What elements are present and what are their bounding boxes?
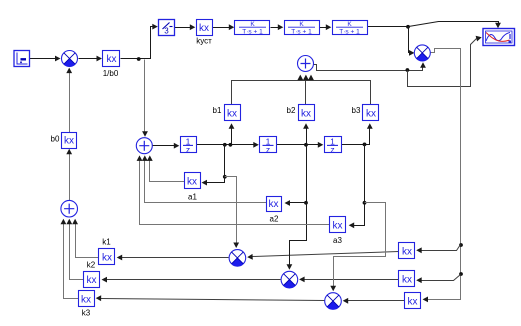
- svg-text:T·s + 1: T·s + 1: [242, 28, 263, 35]
- svg-text:kуст: kуст: [196, 37, 212, 46]
- svg-text:z: z: [266, 144, 270, 154]
- svg-text:b1: b1: [213, 106, 222, 115]
- svg-text:kx: kx: [107, 54, 117, 65]
- svg-text:kx: kx: [402, 246, 412, 257]
- svg-text:kx: kx: [64, 136, 74, 147]
- svg-text:kx: kx: [81, 294, 91, 305]
- svg-text:kx: kx: [408, 296, 418, 307]
- svg-text:kx: kx: [102, 252, 112, 263]
- svg-text:kx: kx: [187, 176, 197, 187]
- svg-text:kx: kx: [87, 275, 97, 286]
- svg-text:kx: kx: [199, 23, 209, 34]
- svg-text:z: z: [330, 144, 334, 154]
- svg-text:kx: kx: [269, 199, 279, 210]
- svg-text:kx: kx: [402, 274, 412, 285]
- svg-text:kx: kx: [333, 220, 343, 231]
- svg-text:kx: kx: [301, 108, 311, 119]
- svg-text:kx: kx: [227, 108, 237, 119]
- svg-text:b3: b3: [352, 106, 361, 115]
- svg-text:a1: a1: [188, 193, 197, 202]
- svg-text:a2: a2: [270, 215, 279, 224]
- svg-text:T·s + 1: T·s + 1: [339, 28, 360, 35]
- svg-text:k1: k1: [102, 238, 111, 247]
- svg-text:1/b0: 1/b0: [103, 69, 119, 78]
- svg-text:kx: kx: [366, 108, 376, 119]
- svg-text:b0: b0: [51, 135, 60, 144]
- svg-text:k3: k3: [82, 309, 91, 318]
- svg-text:b2: b2: [287, 106, 296, 115]
- svg-text:T·s + 1: T·s + 1: [291, 28, 312, 35]
- svg-text:a3: a3: [333, 236, 342, 245]
- svg-text:k2: k2: [87, 261, 96, 270]
- svg-text:3: 3: [164, 27, 169, 36]
- svg-text:z: z: [186, 144, 190, 154]
